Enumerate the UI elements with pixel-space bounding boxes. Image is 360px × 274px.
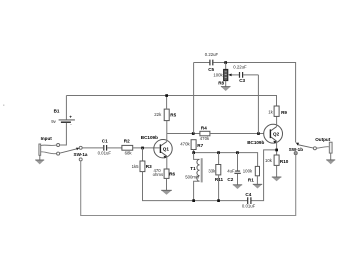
ground (R6) — [161, 190, 172, 194]
value 470 ohms — [153, 168, 164, 177]
wire: junction up to C5 rail — [193, 63, 195, 134]
svg-text:68k: 68k — [125, 151, 133, 156]
svg-text:C5: C5 — [208, 67, 214, 72]
ground (input jack) — [35, 155, 44, 164]
resistor R5 — [164, 109, 169, 121]
value 4uF — [227, 169, 235, 174]
wire: SW-1a throw to C1 — [82, 147, 103, 149]
wire: battery negative down to input node — [60, 123, 67, 145]
label R5 — [170, 113, 176, 118]
ground (output jack) — [326, 153, 335, 164]
ground (R10) — [272, 177, 282, 181]
label Input — [41, 136, 53, 141]
wire: C1 to R2 — [107, 147, 122, 149]
wire: R2 to Q1 base node — [133, 147, 160, 149]
ground (R1) — [253, 184, 262, 188]
svg-text:R5: R5 — [170, 113, 176, 118]
capacitor C4 — [248, 197, 251, 204]
svg-text:R10: R10 — [280, 159, 289, 164]
resistor R10 — [274, 155, 279, 165]
wire: C5 rail — [194, 63, 296, 143]
value 100k (R8) — [213, 72, 223, 77]
battery B1 — [59, 114, 75, 127]
svg-text:10k: 10k — [265, 158, 273, 163]
resistor R3 — [140, 161, 145, 172]
svg-text:ohms: ohms — [153, 172, 164, 177]
label C1 — [102, 139, 108, 144]
label R8 — [218, 81, 224, 86]
label R6 — [169, 172, 175, 177]
ground (R8) — [221, 87, 231, 91]
label Output — [315, 137, 331, 142]
value 0.22uF (C3) — [233, 65, 247, 70]
svg-text:R9: R9 — [281, 110, 287, 115]
wire: R7 bottom node rail to R1 corner — [194, 150, 258, 169]
value 470k (R7) — [180, 142, 190, 147]
wire: R10 bottom stub — [276, 165, 278, 177]
node R11 top — [217, 151, 220, 154]
svg-text:1k: 1k — [268, 110, 273, 115]
value 9v — [51, 119, 56, 124]
svg-text:BC109b: BC109b — [141, 135, 158, 140]
value 0.01uF (C4) — [242, 203, 256, 208]
svg-text:0.01uF: 0.01uF — [98, 151, 112, 156]
wire: SW-1b output contact to jack — [316, 147, 329, 148]
resistor R2 — [122, 145, 133, 150]
label R7 — [197, 143, 203, 148]
svg-text:100k: 100k — [243, 169, 253, 174]
ground (C2) — [233, 185, 242, 189]
switch SW-1b — [294, 143, 316, 155]
label C4 — [245, 192, 251, 197]
svg-text:4uF: 4uF — [227, 169, 235, 174]
wire: R5 top to rail — [166, 96, 168, 110]
svg-text:R4: R4 — [201, 125, 207, 130]
wire: R4 to Q2 base — [210, 133, 264, 135]
wire: R8 top stub — [225, 63, 227, 70]
svg-text:SW-1a: SW-1a — [74, 152, 88, 157]
svg-text:1k5: 1k5 — [132, 164, 140, 169]
svg-text:0.01uF: 0.01uF — [242, 203, 256, 208]
svg-text:Input: Input — [41, 136, 53, 141]
svg-text:B1: B1 — [54, 109, 60, 114]
label R2 — [124, 139, 130, 144]
wire: switch node to battery node — [60, 144, 67, 146]
value 68k — [125, 151, 133, 156]
wire: main supply rail from battery to R9 corner — [66, 96, 276, 107]
label R10 — [280, 159, 289, 164]
svg-text:0.22uF: 0.22uF — [205, 52, 219, 57]
wire: R1 bottom stub — [256, 176, 258, 185]
node C3 / base junction — [257, 132, 260, 135]
label Q2 — [273, 132, 280, 137]
label BC109b (Q2) — [247, 140, 264, 145]
wire: C3 right to Q2 base vertical — [243, 75, 258, 134]
node R11 bottom — [217, 199, 220, 202]
svg-text:R1: R1 — [248, 177, 254, 182]
svg-text:R8: R8 — [218, 81, 224, 86]
svg-text:R11: R11 — [215, 177, 224, 182]
svg-text:SW-1b: SW-1b — [289, 147, 303, 152]
resistor R4 — [200, 131, 210, 136]
label R3 — [146, 164, 152, 169]
label SW-1a — [74, 152, 88, 157]
label T1 — [190, 166, 196, 171]
wire: Q1 collector up and node line to R4 — [167, 121, 200, 142]
value 500mH — [185, 175, 199, 180]
svg-text:Q1: Q1 — [163, 147, 170, 152]
svg-text:T1: T1 — [190, 166, 196, 171]
svg-text:Output: Output — [315, 137, 331, 142]
svg-text:C3: C3 — [239, 78, 245, 83]
label R1 — [248, 177, 254, 182]
svg-text:500mH: 500mH — [185, 175, 199, 180]
resistor R11 — [216, 165, 221, 175]
resistor R6 — [164, 169, 169, 178]
capacitor C5 — [210, 60, 213, 66]
capacitor C2 — [234, 153, 240, 185]
svg-text:22k: 22k — [154, 112, 162, 117]
svg-text:9v: 9v — [51, 119, 56, 124]
svg-text:-: - — [70, 122, 72, 127]
node C2 top — [236, 151, 239, 154]
wire: base node down to R3 — [142, 148, 144, 161]
input jack J-in — [39, 144, 57, 155]
svg-text:470k: 470k — [200, 136, 210, 141]
value 22k — [154, 112, 162, 117]
value 1k5 — [132, 164, 140, 169]
wire: battery top stub — [65, 96, 67, 120]
wire: Q1 emitter down to R6 — [166, 156, 168, 169]
resistor R1 — [255, 166, 259, 175]
node R8 top — [224, 61, 227, 64]
wire: R11 top stub — [218, 153, 220, 165]
label SW-1b — [289, 147, 303, 152]
capacitor C3 — [240, 72, 243, 78]
node R7 bottom — [192, 151, 195, 154]
label C3 — [239, 78, 245, 83]
wire: Q2 collector up to R9 — [276, 116, 278, 126]
label BC109b (Q1) — [141, 135, 158, 140]
wire: C4 right up to emitter node — [252, 150, 277, 201]
svg-text:100k: 100k — [213, 72, 223, 77]
capacitor C1 — [104, 145, 107, 151]
label R11 — [215, 177, 224, 182]
inductor T1 — [194, 153, 203, 201]
wire: Q2 emitter down through node to R10 — [276, 141, 278, 155]
svg-text:BC109b: BC109b — [247, 140, 264, 145]
svg-text:R6: R6 — [169, 172, 175, 177]
switch SW-1a — [57, 144, 83, 161]
svg-text:0.22uF: 0.22uF — [233, 65, 247, 70]
svg-text:R3: R3 — [146, 164, 152, 169]
node T1 bottom — [192, 199, 195, 202]
resistor R9 — [274, 106, 279, 116]
label C2 — [227, 177, 233, 182]
svg-text:R7: R7 — [197, 143, 203, 148]
label R9 — [281, 110, 287, 115]
transistor Q1 — [154, 140, 172, 159]
value 100k (R1) — [243, 169, 253, 174]
svg-text:R2: R2 — [124, 139, 130, 144]
svg-text:470k: 470k — [180, 142, 190, 147]
stray mark — [3, 105, 4, 106]
transistor Q2 — [264, 124, 283, 143]
wire: R6 to ground — [166, 178, 168, 190]
label C5 — [208, 67, 214, 72]
node R5 rail junction — [165, 94, 168, 97]
potentiometer R8 — [224, 69, 240, 80]
label R4 — [201, 125, 207, 130]
svg-text:+: + — [69, 114, 72, 119]
wire: R11 bottom to ground rail — [218, 175, 220, 201]
wire: R8 bottom stub — [225, 81, 227, 87]
wire: R3 bottom to ground rail — [143, 172, 248, 201]
wire: bypass line SW-1a to SW-1b (grey) — [81, 155, 296, 216]
svg-text:C1: C1 — [102, 139, 108, 144]
svg-text:Q2: Q2 — [273, 132, 280, 137]
output jack J-out — [329, 142, 332, 153]
svg-text:33k: 33k — [208, 168, 216, 173]
node Q1 base junction — [141, 147, 144, 150]
value 33k — [208, 168, 216, 173]
resistor R7 — [191, 140, 196, 150]
svg-text:C4: C4 — [245, 192, 251, 197]
value 10k — [265, 158, 273, 163]
label Q1 — [163, 147, 170, 152]
node collector/R4/R7/C5 junction — [192, 132, 195, 135]
node emitter junction — [275, 149, 278, 152]
value 0.22uF (C5) — [205, 52, 219, 57]
value 1k — [268, 110, 273, 115]
value 470k (R4) — [200, 136, 210, 141]
svg-text:C2: C2 — [227, 177, 233, 182]
value 0.01uF — [98, 151, 112, 156]
label B1 — [54, 109, 60, 114]
